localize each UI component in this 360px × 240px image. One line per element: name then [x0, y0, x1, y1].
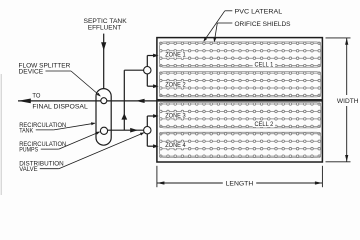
pvc lateral row cell2-8	[160, 155, 321, 158]
arrow feed zone2	[153, 84, 159, 88]
ZONE 2 manifold box	[160, 72, 321, 97]
svg-text:WIDTH: WIDTH	[337, 98, 359, 105]
arrow effluent down	[101, 42, 106, 50]
border artifact left edge	[0, 74, 2, 195]
svg-text:TO: TO	[32, 93, 40, 100]
svg-text:CELL 2: CELL 2	[255, 122, 274, 128]
zone label 3	[163, 112, 188, 118]
leader flow splitter	[46, 70, 72, 72]
arrow length left	[157, 181, 165, 184]
wire disposal/return line	[18, 100, 157, 102]
leader pvc lateral	[225, 10, 233, 12]
svg-text:VALVE: VALVE	[19, 166, 38, 173]
pump P2 circle	[100, 127, 107, 134]
svg-text:PUMPS: PUMPS	[19, 147, 38, 154]
pvc lateral row cell1-8	[160, 94, 321, 97]
cell 2 label	[253, 121, 276, 127]
zone label 4	[163, 142, 188, 148]
leader orifice shields	[217, 22, 232, 24]
arrow to final disposal	[18, 99, 31, 104]
pvc lateral row cell2-6	[160, 140, 321, 143]
arrow riser up	[121, 113, 127, 119]
leader distribution valve	[40, 168, 59, 170]
arrow width bottom	[345, 155, 348, 162]
svg-text:DEVICE: DEVICE	[19, 68, 44, 75]
width extension lines	[326, 37, 351, 39]
width dimension line	[346, 38, 348, 95]
arrow feed zone1	[153, 54, 159, 58]
svg-text:FINAL DISPOSAL: FINAL DISPOSAL	[32, 103, 88, 110]
svg-text:TANK: TANK	[19, 127, 33, 134]
arrow into distribution valve	[130, 128, 138, 133]
pvc lateral row cell2-4	[160, 125, 321, 128]
pvc lateral row cell2-1	[160, 103, 321, 106]
length dimension line	[157, 182, 223, 184]
leader recirculation tank	[36, 129, 54, 131]
length extension lines	[156, 166, 158, 187]
svg-text:ORIFICE SHIELDS: ORIFICE SHIELDS	[235, 21, 292, 28]
pvc lateral row cell1-6	[160, 79, 321, 82]
wire pump to distribution valve	[107, 129, 143, 131]
arrow width top	[345, 38, 348, 45]
sand filter bed outline	[157, 38, 323, 162]
pvc lateral row cell1-7	[160, 87, 321, 90]
arrow length right	[315, 181, 323, 184]
pvc lateral row cell1-3	[160, 57, 321, 60]
leader recirculation pumps	[41, 148, 59, 150]
arrow feed zone3	[153, 114, 159, 118]
zone label 1	[163, 52, 188, 58]
cell 1 label	[253, 61, 276, 67]
arrow return flow left	[136, 99, 145, 103]
wire septic effluent drop	[103, 34, 105, 89]
pvc lateral row cell2-7	[160, 147, 321, 150]
cell divider manifold	[157, 99, 323, 102]
distribution valve circle	[144, 127, 151, 134]
pvc lateral row cell2-5	[160, 133, 321, 136]
ZONE 3 manifold box	[160, 103, 321, 128]
svg-text:PVC LATERAL: PVC LATERAL	[235, 9, 283, 16]
pvc lateral row cell1-2	[160, 50, 321, 53]
pvc lateral row cell2-3	[160, 118, 321, 121]
zone label 2	[163, 81, 188, 87]
svg-text:ZONE 4: ZONE 4	[165, 143, 186, 149]
pvc lateral row cell1-1	[160, 42, 321, 45]
svg-text:LENGTH: LENGTH	[226, 181, 254, 188]
recirculation tank	[96, 89, 111, 146]
wire bracket zone3/4	[146, 116, 148, 127]
svg-text:CELL 1: CELL 1	[255, 62, 274, 68]
ZONE 1 manifold box	[160, 42, 321, 67]
pvc lateral row cell2-2	[160, 110, 321, 113]
svg-text:ZONE 2: ZONE 2	[165, 82, 186, 88]
wire riser to zone selector	[124, 69, 143, 71]
pvc lateral row cell1-4	[160, 64, 321, 67]
wire bracket zone1/2	[146, 56, 148, 67]
pump P1 (splitter) circle	[101, 98, 107, 104]
pvc lateral row cell1-5	[160, 72, 321, 75]
wire pump discharge riser	[123, 70, 125, 130]
ZONE 4 manifold box	[160, 132, 321, 157]
svg-text:ZONE 1: ZONE 1	[165, 53, 186, 59]
arrow feed zone4	[153, 144, 159, 148]
zone selector circle	[144, 67, 151, 74]
svg-text:EFFLUENT: EFFLUENT	[88, 24, 121, 31]
svg-text:ZONE 3: ZONE 3	[165, 113, 186, 119]
